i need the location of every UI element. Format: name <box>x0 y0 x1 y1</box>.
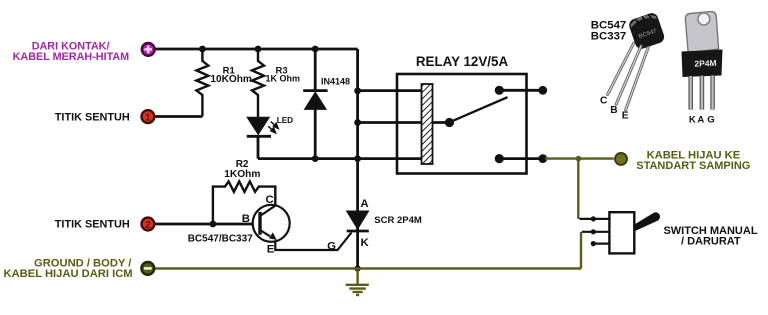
svg-text:G: G <box>327 241 336 253</box>
svg-text:TITIK SENTUH: TITIK SENTUH <box>55 112 130 124</box>
svg-text:E: E <box>622 111 629 122</box>
svg-text:BC337: BC337 <box>591 31 626 43</box>
svg-text:TITIK SENTUH: TITIK SENTUH <box>55 219 130 231</box>
svg-text:KABEL MERAH-HITAM: KABEL MERAH-HITAM <box>13 51 130 63</box>
svg-text:1K Ohm: 1K Ohm <box>266 74 301 84</box>
svg-text:A: A <box>697 115 704 126</box>
svg-text:1KOhm: 1KOhm <box>224 169 260 180</box>
svg-text:BC547/BC337: BC547/BC337 <box>188 234 253 245</box>
svg-text:SCR 2P4M: SCR 2P4M <box>374 215 422 226</box>
svg-text:B: B <box>242 213 250 225</box>
svg-text:C: C <box>600 95 608 106</box>
svg-text:K: K <box>361 237 370 249</box>
svg-text:RELAY 12V/5A: RELAY 12V/5A <box>416 54 509 69</box>
svg-text:/ DARURAT: / DARURAT <box>681 235 741 247</box>
svg-text:10KOhm: 10KOhm <box>210 74 252 85</box>
svg-text:2: 2 <box>145 220 151 231</box>
svg-text:R2: R2 <box>236 159 249 170</box>
svg-text:G: G <box>707 115 714 126</box>
svg-text:STANDART SAMPING: STANDART SAMPING <box>636 160 750 172</box>
svg-text:KABEL HIJAU DARI ICM: KABEL HIJAU DARI ICM <box>4 268 133 280</box>
svg-text:IN4148: IN4148 <box>321 77 350 87</box>
svg-text:K: K <box>689 115 696 126</box>
svg-text:2P4M: 2P4M <box>694 58 717 69</box>
svg-text:E: E <box>267 243 275 255</box>
svg-text:LED: LED <box>277 116 293 125</box>
svg-text:B: B <box>610 105 617 116</box>
svg-text:A: A <box>360 198 368 210</box>
svg-text:1: 1 <box>145 112 151 123</box>
svg-text:C: C <box>266 194 274 206</box>
